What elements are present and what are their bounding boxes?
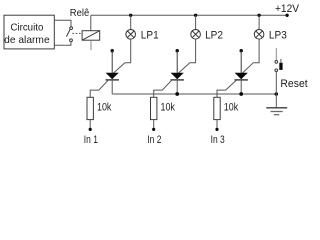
lamp LP3 top lead bbox=[258, 15, 260, 29]
relay coil bottom stub bbox=[90, 40, 92, 50]
lamp LP1 top lead bbox=[130, 15, 132, 29]
SCR3 cathode lead bbox=[240, 80, 242, 94]
lamp LP2 top lead bbox=[195, 15, 197, 29]
ground symbol bbox=[266, 108, 287, 115]
wire: alarm box to relay contact bottom bbox=[54, 42, 71, 46]
svg-text:Circuito: Circuito bbox=[10, 22, 43, 33]
wire: LP1 to SCR1 anode bbox=[113, 39, 131, 73]
rail junction dot node 2 bbox=[194, 14, 197, 17]
svg-text:+12V: +12V bbox=[275, 3, 300, 15]
wire: alarm box to relay contact top bbox=[54, 20, 71, 26]
SCR1 (thyristor) bbox=[106, 73, 119, 80]
reset button cap bbox=[279, 63, 282, 70]
reset switch terminal bottom bbox=[275, 69, 278, 72]
relay contact lever bbox=[66, 29, 70, 36]
rail junction dot node 3 bbox=[257, 14, 260, 17]
bus junction dot at reset/ground bbox=[275, 92, 279, 96]
SCR3 anode terminal dot bbox=[240, 49, 243, 52]
resistor R1 10k bbox=[87, 97, 93, 119]
+12V top rail bbox=[91, 14, 287, 16]
SCR2 anode terminal dot bbox=[176, 49, 179, 52]
SCR2 anode lead bbox=[176, 51, 178, 73]
svg-text:de alarme: de alarme bbox=[4, 35, 50, 46]
bus junction dot at SCR3 bbox=[239, 92, 243, 96]
In 2 terminal bbox=[152, 128, 155, 131]
svg-text:Reset: Reset bbox=[280, 78, 308, 90]
SCR2 (thyristor) bbox=[171, 73, 184, 80]
+12V terminal dot bbox=[285, 14, 288, 17]
SCR1 anode terminal dot bbox=[111, 49, 114, 52]
svg-text:LP1: LP1 bbox=[141, 30, 159, 42]
SCR2 cathode lead bbox=[176, 80, 178, 94]
SCR3 gate wire bbox=[217, 80, 237, 98]
relay contact terminal bottom bbox=[70, 39, 73, 42]
lamp LP1 bbox=[126, 30, 136, 40]
SCR2 gate wire bbox=[154, 80, 173, 98]
reset button actuator stem bbox=[280, 59, 282, 63]
svg-text:In 1: In 1 bbox=[84, 134, 98, 146]
SCR3 anode lead bbox=[240, 51, 242, 73]
lamp LP3 bbox=[254, 30, 264, 40]
resistor R2 10k bbox=[151, 97, 157, 119]
R1 bottom lead bbox=[89, 120, 91, 130]
relay coil top lead bbox=[90, 15, 92, 30]
SCR3 (thyristor) bbox=[235, 73, 248, 80]
R3 bottom lead bbox=[216, 120, 218, 130]
wire: LP2 to SCR2 anode bbox=[178, 39, 196, 73]
R2 bottom lead bbox=[153, 120, 155, 130]
lamp LP2 bbox=[191, 30, 201, 40]
resistor R3 10k bbox=[214, 97, 220, 119]
In 3 terminal bbox=[215, 128, 218, 131]
svg-text:Relê: Relê bbox=[70, 8, 90, 19]
reset switch top stub bbox=[275, 48, 277, 61]
svg-text:10k: 10k bbox=[224, 102, 239, 114]
In 1 terminal bbox=[89, 128, 92, 131]
SCR1 gate wire bbox=[90, 80, 109, 98]
svg-text:In 2: In 2 bbox=[147, 134, 161, 146]
reset switch bottom lead bbox=[275, 72, 277, 94]
svg-text:LP3: LP3 bbox=[269, 30, 287, 42]
svg-text:10k: 10k bbox=[161, 102, 176, 114]
wire: LP3 to SCR3 anode bbox=[242, 39, 259, 73]
alarm circuit box bbox=[4, 15, 54, 49]
bus junction dot at SCR2 bbox=[175, 92, 179, 96]
svg-text:In 3: In 3 bbox=[211, 134, 225, 146]
rail junction dot node 1 bbox=[129, 14, 132, 17]
relay contact terminal top bbox=[70, 27, 73, 30]
relay actuator dashed link bbox=[72, 32, 82, 34]
cathode bus wire bbox=[112, 93, 276, 95]
svg-text:10k: 10k bbox=[97, 102, 112, 114]
SCR1 cathode lead bbox=[111, 80, 113, 94]
SCR1 anode lead bbox=[111, 51, 113, 73]
reset switch terminal top bbox=[275, 61, 278, 64]
svg-text:LP2: LP2 bbox=[205, 30, 223, 42]
relay coil bbox=[82, 31, 100, 41]
ground lead bbox=[275, 94, 277, 108]
